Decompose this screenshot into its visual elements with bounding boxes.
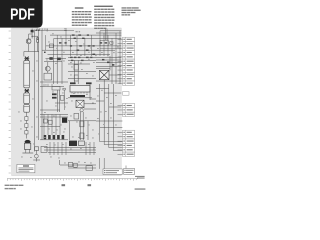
wire h150: [44, 149, 96, 151]
capacitor C1 electrolytic body: [24, 61, 30, 88]
resistor R21: [74, 163, 78, 167]
wire vertical net w1: [99, 84, 101, 140]
transformer T1: [76, 100, 84, 107]
connector CN3 pin boxes 1-6: [123, 130, 135, 156]
wire horizontal lower-left bus: [24, 51, 39, 53]
wire right bus r4: [96, 65, 121, 67]
wire D2-D3: [25, 127, 27, 130]
component cluster small box K1: [100, 40, 108, 46]
bridge rectifier BR1: [99, 70, 109, 79]
footer right lower text: [135, 188, 146, 189]
wire riser mid a: [73, 60, 75, 84]
note stamp box: [17, 164, 35, 172]
wire h168: [68, 167, 96, 169]
resistor R17: [74, 113, 79, 119]
wire bus H-mid3: [68, 63, 90, 65]
fuse F1: [31, 29, 34, 33]
connector CN2 aux box: [123, 92, 129, 96]
resistor marks mid row: [70, 57, 92, 61]
wire AC input vertical: [31, 32, 33, 38]
capacitor C3 electrolytic body: [24, 105, 30, 113]
diode D10 dash: [107, 62, 109, 64]
wire mid-left riser c: [61, 56, 63, 84]
wire h114: [40, 113, 68, 115]
diode D3: [25, 131, 28, 134]
wire mid-left lower bus: [40, 81, 68, 83]
wire mid-left riser b: [56, 56, 58, 84]
wire stub to title box TB2: [125, 166, 127, 169]
resistor R22 small outline: [110, 42, 113, 45]
wire bus H-top6 to connector: [96, 32, 121, 34]
diode D11 dash: [112, 64, 114, 66]
microtext labels above H-top0: [37, 29, 81, 33]
wire h152: [48, 152, 96, 154]
wire corner h107: [109, 106, 122, 108]
wire node to R1: [32, 35, 38, 37]
wire bottom-left link: [33, 159, 40, 161]
diode row bottom D10-D14: [44, 135, 65, 139]
capacitor C16: [86, 166, 92, 171]
diode D7 dark dash: [86, 82, 92, 84]
wire D1-D2: [25, 120, 27, 123]
diode D4: [49, 57, 52, 60]
vertical drop wires from top buses: [45, 29, 120, 56]
capacitor C13: [60, 95, 64, 100]
wire stubs above h86: [43, 84, 45, 87]
relay RY1 coil box: [44, 73, 52, 80]
wire bus H-top2: [54, 37, 121, 39]
capacitor C17 small mark: [63, 88, 65, 90]
transistor Q2 body: [24, 143, 30, 153]
note text block B body: [94, 9, 114, 29]
transistor Q1: [26, 39, 31, 44]
IC U2 dark box: [62, 118, 67, 123]
wire corner h93: [104, 92, 121, 94]
wire right bus r5: [96, 80, 121, 82]
wire corner h88: [96, 87, 109, 89]
wire stub x59: [59, 160, 61, 165]
thermistor TH1: [35, 154, 39, 158]
wires to CN2 pins: [118, 106, 123, 115]
resistor R16: [48, 120, 52, 124]
connector CN2 pin boxes 1-3: [123, 103, 135, 116]
wire riser x88: [87, 121, 89, 140]
wire riser mid b: [77, 60, 79, 84]
scanned schematic page background: [12, 28, 122, 176]
wire risers 57-59: [56, 90, 58, 112]
LED D8: [80, 109, 83, 112]
wire drops to ladder G3: [100, 140, 123, 151]
connector J5 small box: [41, 146, 47, 152]
note text block C address lines: [122, 7, 141, 15]
wire riser x64: [64, 90, 66, 110]
wire to C1 positive: [23, 52, 25, 57]
wire y99 right: [90, 98, 96, 100]
title box TB2: [124, 169, 135, 175]
wire corner h101: [96, 100, 104, 102]
wire vertical net w4: [112, 84, 114, 140]
wire bus V3: [41, 30, 43, 140]
resistor R2: [35, 147, 39, 151]
wire h117: [40, 116, 68, 118]
wire bus V2: [38, 30, 40, 141]
wire bus H-top8 right segment: [100, 47, 121, 49]
wire bus h140: [40, 139, 68, 141]
wire BR1 bottom lead: [103, 80, 105, 84]
wire h86: [40, 85, 64, 87]
wire BR1 output: [109, 74, 121, 76]
diode D6 dark dash: [70, 82, 76, 84]
wires to CN1 pins: [118, 39, 123, 83]
connector CN1 pin boxes 1-11: [123, 37, 135, 85]
footer left line 2: [5, 188, 9, 189]
wire bus H-top7 to connector: [100, 30, 121, 32]
IC U1 box: [70, 85, 90, 93]
wire riser x90: [89, 84, 91, 100]
diode D1: [25, 117, 28, 121]
wire R1 lower: [37, 42, 39, 51]
wire cluster verticals near K1: [105, 29, 107, 41]
wire Q3 leads: [47, 62, 49, 66]
left margin ruler ticks: [9, 31, 11, 173]
junction specks near bus V2 top: [36, 30, 40, 31]
resistor R14: [52, 97, 57, 99]
resistor R13: [52, 93, 57, 95]
wire bus H-top3: [46, 45, 121, 47]
wire h147: [44, 146, 96, 148]
IC U3 dark box: [69, 141, 77, 146]
wire right bus r6: [96, 68, 110, 70]
diode D9 dash: [102, 59, 104, 61]
bottom ruler line with ticks: [7, 179, 138, 181]
wire h126: [40, 126, 60, 128]
capacitor cluster C10: [49, 44, 53, 48]
transistor Q2 heatsink cap: [25, 140, 31, 144]
wire under U1: [68, 97, 92, 99]
resistor R1: [37, 38, 39, 42]
resistor R12: [74, 75, 78, 81]
wire bus H-top4: [42, 49, 115, 51]
wire mid-left riser a: [53, 56, 55, 84]
wire riser x69: [69, 121, 71, 140]
title box TB1: [103, 169, 122, 175]
resistor R15: [43, 119, 47, 123]
capacitor C12 box: [52, 86, 60, 90]
wire Q1 collector: [28, 34, 30, 39]
junction node A: [31, 36, 32, 37]
wire bus V1: [34, 30, 36, 152]
wire h103: [55, 102, 68, 104]
wire bus H-top1: [50, 34, 121, 36]
wire Q2 mounting base: [22, 152, 33, 154]
diode D2: [25, 124, 28, 128]
wire corner h120: [68, 120, 96, 122]
wire Q1 emitter: [28, 44, 30, 52]
wire bus H-mid1: [68, 56, 96, 58]
wire risers x80 x83: [80, 112, 82, 140]
capacitor C14: [80, 121, 84, 127]
svg-text:PDF: PDF: [10, 7, 35, 24]
net arrow heavy dash: [70, 95, 85, 97]
wire bus H-mid5: [68, 77, 96, 79]
wire h110: [40, 109, 60, 111]
resistor row on top buses: [44, 34, 107, 55]
capacitor C15: [80, 133, 84, 139]
wire bus H-mid4: [68, 70, 96, 72]
wire bus H-top0: [35, 30, 74, 32]
wires to CN3 pins: [118, 132, 123, 154]
wire h127: [100, 126, 122, 128]
wire risers y142-155: [50, 142, 94, 155]
footer right upper text: [135, 176, 145, 179]
wire bus H-mid2: [68, 59, 96, 61]
wire bottom link to title box TB1: [99, 158, 101, 169]
wire right bus r2: [96, 59, 121, 61]
wire risers r44-60: [44, 114, 60, 135]
PDF badge: [0, 0, 43, 28]
wire right bus r1: [96, 56, 121, 58]
value label specks near top buses: [48, 33, 119, 56]
value label specks middle sections: [18, 59, 117, 164]
wire bus H-top5: [48, 53, 111, 55]
wire h121: [96, 120, 122, 122]
wire TH1 leads: [35, 150, 37, 154]
transistor Q3: [45, 66, 50, 71]
wire vertical net w2: [103, 84, 105, 140]
wire C3 to diode chain: [25, 112, 27, 116]
wire D3 down: [25, 134, 27, 139]
IC U4 box: [78, 141, 84, 145]
wire riser x110 upper: [109, 56, 111, 70]
wire y109: [84, 108, 96, 110]
note text block B heading: [94, 6, 113, 7]
capacitor C2 electrolytic body: [24, 93, 30, 104]
note text block A body: [72, 11, 92, 26]
page number 1B: [62, 184, 66, 186]
wire diode row: [46, 58, 67, 60]
wire vertical net w3: [108, 84, 110, 140]
tick stubs top edge: [64, 28, 67, 30]
wire T1 right: [84, 103, 96, 105]
polarity mark X1 of capacitor C1: [24, 57, 29, 61]
wire right bus r3: [96, 62, 121, 64]
polarity mark X2 of capacitor C2: [24, 89, 29, 93]
wire mid horizontal 61: [44, 61, 62, 63]
wire right risers: [111, 56, 113, 84]
page number 2B: [88, 184, 92, 186]
footer left line 1: [5, 185, 10, 186]
resistor R20: [68, 162, 72, 166]
wire h165: [60, 164, 96, 166]
capacitor C11: [74, 65, 78, 70]
note text block A heading: [75, 7, 84, 8]
diode D5: [57, 58, 60, 61]
